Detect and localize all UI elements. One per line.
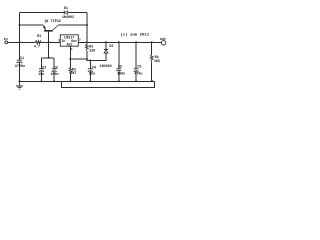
diode D2 xyxy=(104,48,108,50)
resistor R1 xyxy=(35,41,40,44)
wire C5 top xyxy=(118,42,120,68)
svg-text:2: 2 xyxy=(79,39,81,42)
wire C4 bottom xyxy=(89,71,91,81)
node R4 rail junction xyxy=(151,41,153,43)
ground xyxy=(19,81,21,86)
svg-text:D2: D2 xyxy=(109,45,113,49)
svg-text:R1: R1 xyxy=(37,35,41,39)
svg-text:C2: C2 xyxy=(42,66,46,70)
wire D2 top xyxy=(105,42,107,49)
capacitor C5 xyxy=(116,68,121,70)
node collector junction xyxy=(86,24,88,26)
connector J1 input xyxy=(5,41,8,44)
svg-text:(c) sum 2011: (c) sum 2011 xyxy=(120,32,149,37)
wire R4 bottom xyxy=(151,62,153,81)
transistor Q1 collector xyxy=(53,25,59,30)
node D2 rail junction xyxy=(105,41,107,43)
svg-text:2K7: 2K7 xyxy=(71,72,77,76)
wire C6 bottom xyxy=(135,71,137,81)
svg-text:10u: 10u xyxy=(38,73,44,77)
wire R2 top xyxy=(86,42,88,44)
wire C3 bottom xyxy=(53,71,55,81)
node out junction xyxy=(86,41,88,43)
wire cap tee rail xyxy=(41,57,54,59)
node cap tee junction xyxy=(48,57,50,59)
svg-text:D1: D1 xyxy=(64,7,68,11)
wire C1 stub xyxy=(19,42,21,60)
node C1 ground junction xyxy=(19,80,21,82)
svg-text:100n: 100n xyxy=(50,73,58,77)
node R3 ground junction xyxy=(69,80,71,82)
wire top rail right of D1 xyxy=(68,12,88,14)
svg-text:3: 3 xyxy=(58,39,60,43)
svg-text:in: in xyxy=(4,37,8,42)
diode D1 xyxy=(63,11,65,15)
transistor Q1 emitter xyxy=(43,25,46,30)
svg-text:C4: C4 xyxy=(92,67,96,71)
node input junction xyxy=(19,41,21,43)
svg-text:Q1 TIP42: Q1 TIP42 xyxy=(45,20,61,24)
wire R3 top xyxy=(69,59,71,68)
svg-text:4.7: 4.7 xyxy=(34,46,40,50)
svg-text:470u: 470u xyxy=(134,73,142,77)
connector output xyxy=(161,41,165,45)
capacitor C3 xyxy=(52,68,57,70)
wire R4 top xyxy=(151,42,153,55)
transistor Q2 bar xyxy=(44,30,53,32)
svg-text:In: In xyxy=(62,39,66,43)
node C4 ground junction xyxy=(89,80,91,82)
node C5 ground junction xyxy=(118,80,120,82)
wire C3 stub xyxy=(53,58,55,69)
wire adj dogleg to D2 and C4 xyxy=(87,53,106,61)
wire top rail left xyxy=(20,12,65,14)
wire Q1 base drop xyxy=(48,31,50,42)
wire C5 bottom xyxy=(118,71,120,82)
svg-text:1N4002: 1N4002 xyxy=(100,65,112,69)
wire C2 stub xyxy=(40,58,42,69)
svg-text:C5: C5 xyxy=(118,65,122,69)
svg-text:C6: C6 xyxy=(137,65,141,69)
wire base node down to cap tee xyxy=(48,42,50,58)
resistor R3 xyxy=(69,68,72,73)
node C3 ground junction xyxy=(53,80,55,82)
svg-text:1N4002: 1N4002 xyxy=(62,16,74,20)
transistor Q1 emitter arrow xyxy=(43,26,46,30)
node base junction xyxy=(48,41,50,43)
wire R2 bottom xyxy=(86,51,88,59)
svg-text:100n: 100n xyxy=(117,73,125,77)
svg-text:1K5: 1K5 xyxy=(154,60,160,64)
capacitor C2 xyxy=(39,68,44,70)
capacitor C6 xyxy=(134,68,139,70)
wire collector rail xyxy=(59,24,88,26)
svg-text:C1: C1 xyxy=(20,57,24,61)
wire LM317 adj pin xyxy=(69,46,71,59)
svg-text:4700u: 4700u xyxy=(15,65,25,69)
wire LM317 Out rail to output xyxy=(78,41,161,43)
node C6 rail junction xyxy=(135,41,137,43)
node C5 rail junction xyxy=(118,41,120,43)
wire ground rail xyxy=(20,80,155,82)
svg-text:Adj: Adj xyxy=(67,43,73,47)
wire C2 bottom xyxy=(40,71,42,81)
node emitter rail junction xyxy=(19,24,21,26)
svg-text:10u: 10u xyxy=(89,72,95,76)
svg-text:C3: C3 xyxy=(54,66,58,70)
wire left vertical input riser xyxy=(19,13,21,43)
wire C4 stub xyxy=(89,61,91,69)
node R4 ground junction xyxy=(151,80,153,82)
capacitor C4 xyxy=(88,68,93,70)
wire R1 to LM317 In xyxy=(41,41,61,43)
resistor R4 xyxy=(150,55,153,62)
wire right vertical D1/collector to out xyxy=(86,13,88,43)
node adj R2 junction xyxy=(86,58,88,60)
svg-text:1: 1 xyxy=(71,48,73,51)
svg-text:220: 220 xyxy=(89,50,95,54)
node adj pin junction xyxy=(69,58,71,60)
capacitor C1 xyxy=(17,59,23,61)
wire R3 bottom xyxy=(69,73,71,81)
wire input rail to R1 xyxy=(8,41,36,43)
wire ground loop xyxy=(62,81,155,87)
op-amp U1 LM317 box xyxy=(60,35,78,46)
svg-text:out: out xyxy=(160,38,166,42)
wire C6 top xyxy=(135,42,137,68)
wire emitter rail xyxy=(20,24,44,26)
wire C1 to ground xyxy=(19,62,21,81)
node C4 top junction xyxy=(89,60,91,62)
wire adj rail xyxy=(70,58,86,60)
node C6 ground junction xyxy=(135,80,137,82)
node C2 ground junction xyxy=(40,80,42,82)
resistor R2 xyxy=(85,44,88,50)
